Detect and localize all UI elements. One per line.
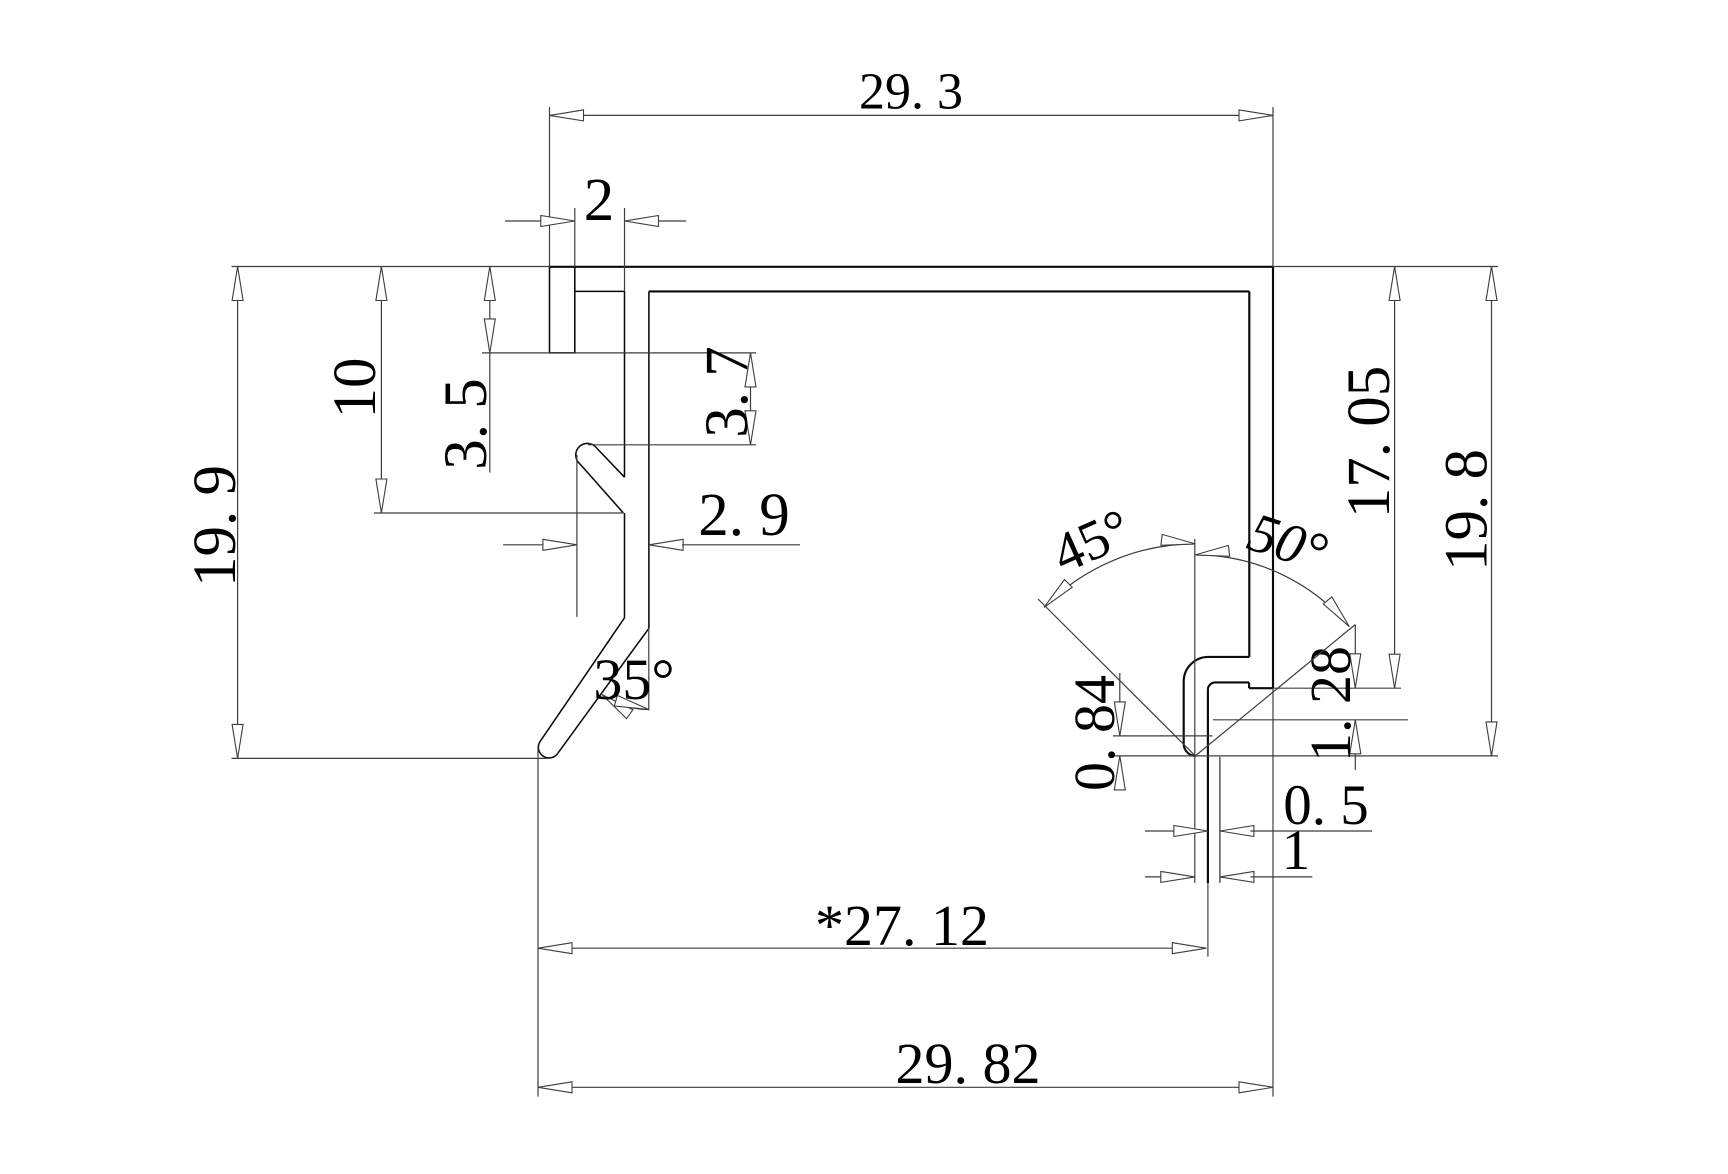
extension line x=1273 below wall for 29.82 [1272,688,1274,1096]
profile hook arm lower edge [1208,682,1249,689]
extension line top edge right [1273,266,1498,268]
dimension 1.28 lower line [1354,720,1356,770]
extension line right outer edge above [1272,107,1274,267]
svg-text:10: 10 [322,358,389,419]
extension line top edge left [232,266,550,268]
dimension 10 top arrow [376,267,387,301]
dimension 0.5 right arrow [1220,826,1254,837]
profile barb upper edge [597,448,625,477]
dimension 29.82 line [538,1086,1273,1088]
dimension 2 right arrow [625,216,659,227]
dimension 29.3 right arrow [1239,110,1273,121]
svg-text:2. 9: 2. 9 [698,482,790,549]
svg-text:3. 5: 3. 5 [433,378,500,470]
profile leg inner 35-degree diagonal [558,628,649,753]
dimension 3.7 top arrow [745,353,756,387]
dimension 3.7 bottom arrow [745,411,756,445]
extension line y=688.2 right of wall for 1.28 and 17.05 [1273,687,1401,689]
dimension 2 left tail [505,220,541,222]
svg-text:29. 82: 29. 82 [896,1031,1041,1096]
extension line bottom left y=758.4 for 19.9 [232,757,548,759]
dimension 50deg right ray [1195,625,1355,756]
dimension 35deg arc [602,695,649,710]
extension line y=735.9 for 0.84 [1113,735,1213,737]
dimension 0.5 left arrow [1174,826,1208,837]
dimension 0.84 upper line [1119,673,1121,736]
dimension 1 right tail [1250,876,1312,878]
extension line tab right edge above [574,208,576,267]
dimension 29.3 line [550,114,1274,116]
dimension 2 right tail [658,220,686,222]
dimension 10 line [380,267,382,514]
svg-text:2: 2 [584,167,615,234]
dimension 19.8 bottom arrow [1486,722,1497,756]
dimension 45deg arrow on vertical [1161,534,1195,545]
extension line bottom right y=755.9 for 0.84 and 19.8 [1113,755,1498,757]
extension line y=352.9 for 3.5 and 3.7 [482,352,756,354]
dimension 0.84 upper arrow [1114,702,1125,736]
dimension 29.3 left arrow [550,110,584,121]
dimension 1 left tail [1145,876,1170,878]
dimension 3.5 bottom arrow [484,319,495,353]
svg-text:1: 1 [1282,819,1311,882]
dimension 0.84 lower arrow [1114,756,1125,790]
dimension 50deg arrow on vertical [1195,545,1229,556]
dimension 50deg arrow on ray [1323,597,1349,627]
profile leg rounded tip [538,741,557,758]
dimension 19.9 bottom arrow [232,724,243,758]
profile leg left edge upper section [624,291,626,477]
dimension 17.05 top arrow [1389,267,1400,301]
svg-text:35°: 35° [593,647,674,712]
dimension 3.5 line [489,267,491,353]
svg-text:17. 05: 17. 05 [1336,366,1403,519]
dimension 35deg arrow on vertical [614,695,648,709]
dimension 10 bottom arrow [376,479,387,513]
dimension 19.8 top arrow [1486,267,1497,301]
dimension 1 left arrow [1161,871,1195,882]
profile leg outer 35-degree diagonal [540,618,624,741]
svg-text:19. 8: 19. 8 [1434,449,1501,571]
dimension 2.9 right arrow [649,539,683,550]
extension line y=444.8 for 3.7 [588,444,756,446]
dimension 29.82 right arrow [1239,1082,1273,1093]
dimension 19.9 line [237,267,239,759]
profile right wall inner edge [1248,291,1250,657]
dimension 29.82 left arrow [538,1082,572,1093]
profile right wall bottom face [1249,687,1273,689]
extension line y=513 for 10 [374,512,624,514]
dimension 35deg arrow on diagonal [602,695,633,719]
svg-text:29. 3: 29. 3 [859,64,963,121]
dimension 45deg arrow on ray [1044,580,1072,608]
dimension 2.9 right tail [682,544,800,546]
dimension 1 right arrow [1220,871,1254,882]
svg-text:3. 7: 3. 7 [694,346,761,438]
extension line y=719.8 for 1.28 [1213,719,1408,721]
profile barb rounded cap [576,443,597,463]
extension line fin left edge down for 27.12 [1207,883,1209,957]
dimension 50deg arc [1195,555,1349,627]
svg-text:0. 84: 0. 84 [1062,675,1127,791]
dimension 1.28 lower arrow [1350,720,1361,754]
profile top wall outer edge [550,266,1274,268]
dimension 27.12 left arrow [538,943,572,954]
dimension 2 left arrow [541,216,575,227]
extension line leg right edge below bend for 35deg [648,628,650,710]
dimension 45deg arc [1044,544,1195,607]
svg-text:19. 9: 19. 9 [182,465,249,587]
profile barb lower edge [580,464,624,513]
dimension 27.12 line [538,947,1206,949]
extension line x=538 leg tip for 27.12 and 29.82 [537,746,539,1097]
profile top wall inner edge between tab and leg [575,290,625,292]
profile right wall outer edge [1272,267,1274,688]
dimension 2.9 left tail [503,544,543,546]
profile hook arm upper edge with corner arc [1184,657,1250,744]
extension line tab left edge above [549,107,551,267]
extension line fin right x=1219.9 for 0.5 and 1 [1219,757,1221,883]
profile hook rounded tip [1184,744,1196,756]
dimension 1.28 upper arrow [1350,654,1361,688]
dimension 27.12 right arrow [1172,943,1206,954]
profile hook inner vertical edge / fin left edge [1207,690,1209,883]
profile top wall inner edge right of leg [649,290,1249,292]
dimension 3.5 top arrow [484,267,495,301]
dimension 3.7 line [750,353,752,445]
dimension 17.05 line [1394,267,1396,689]
profile leg right edge [648,291,650,628]
dimension 19.9 top arrow [232,267,243,301]
dimension 0.5 left tail [1145,830,1176,832]
extension line leg left edge above [624,208,626,291]
dimension 0.5 right tail [1250,830,1372,832]
dimension 0.84 lower line [1119,756,1121,790]
profile left tab [550,267,575,353]
dimension 45deg left ray [1038,599,1195,756]
dimension 1.28 upper line [1354,625,1356,688]
extension line barb cap left for 2.9 [576,455,578,617]
extension line hook tip vertical x=1194.8 [1194,539,1196,883]
dimension 19.8 line [1491,267,1493,756]
dimension 2.9 left arrow [543,539,577,550]
svg-text:*27. 12: *27. 12 [815,893,989,958]
dimension 17.05 bottom arrow [1389,654,1400,688]
profile step up at wall bottom [1248,682,1250,688]
profile leg left edge lower section [624,513,626,618]
